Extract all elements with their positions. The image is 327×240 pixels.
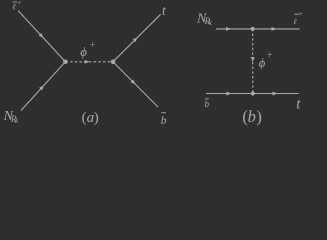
svg-text:+: +	[267, 50, 273, 60]
svg-text:): )	[94, 110, 99, 126]
svg-text:k: k	[15, 117, 19, 125]
svg-text:b: b	[248, 107, 256, 126]
svg-text:b: b	[161, 115, 167, 127]
svg-text:k: k	[209, 19, 213, 27]
svg-text:b: b	[204, 100, 209, 110]
svg-text:+: +	[89, 40, 95, 50]
svg-text:t: t	[296, 97, 301, 113]
svg-text:+: +	[17, 0, 22, 7]
svg-text:ℓ: ℓ	[293, 17, 297, 26]
svg-text:ϕ: ϕ	[259, 56, 266, 70]
svg-text:ϕ: ϕ	[80, 44, 87, 59]
svg-text:): )	[256, 107, 262, 126]
svg-text:+: +	[298, 9, 303, 18]
svg-text:t: t	[162, 3, 167, 18]
